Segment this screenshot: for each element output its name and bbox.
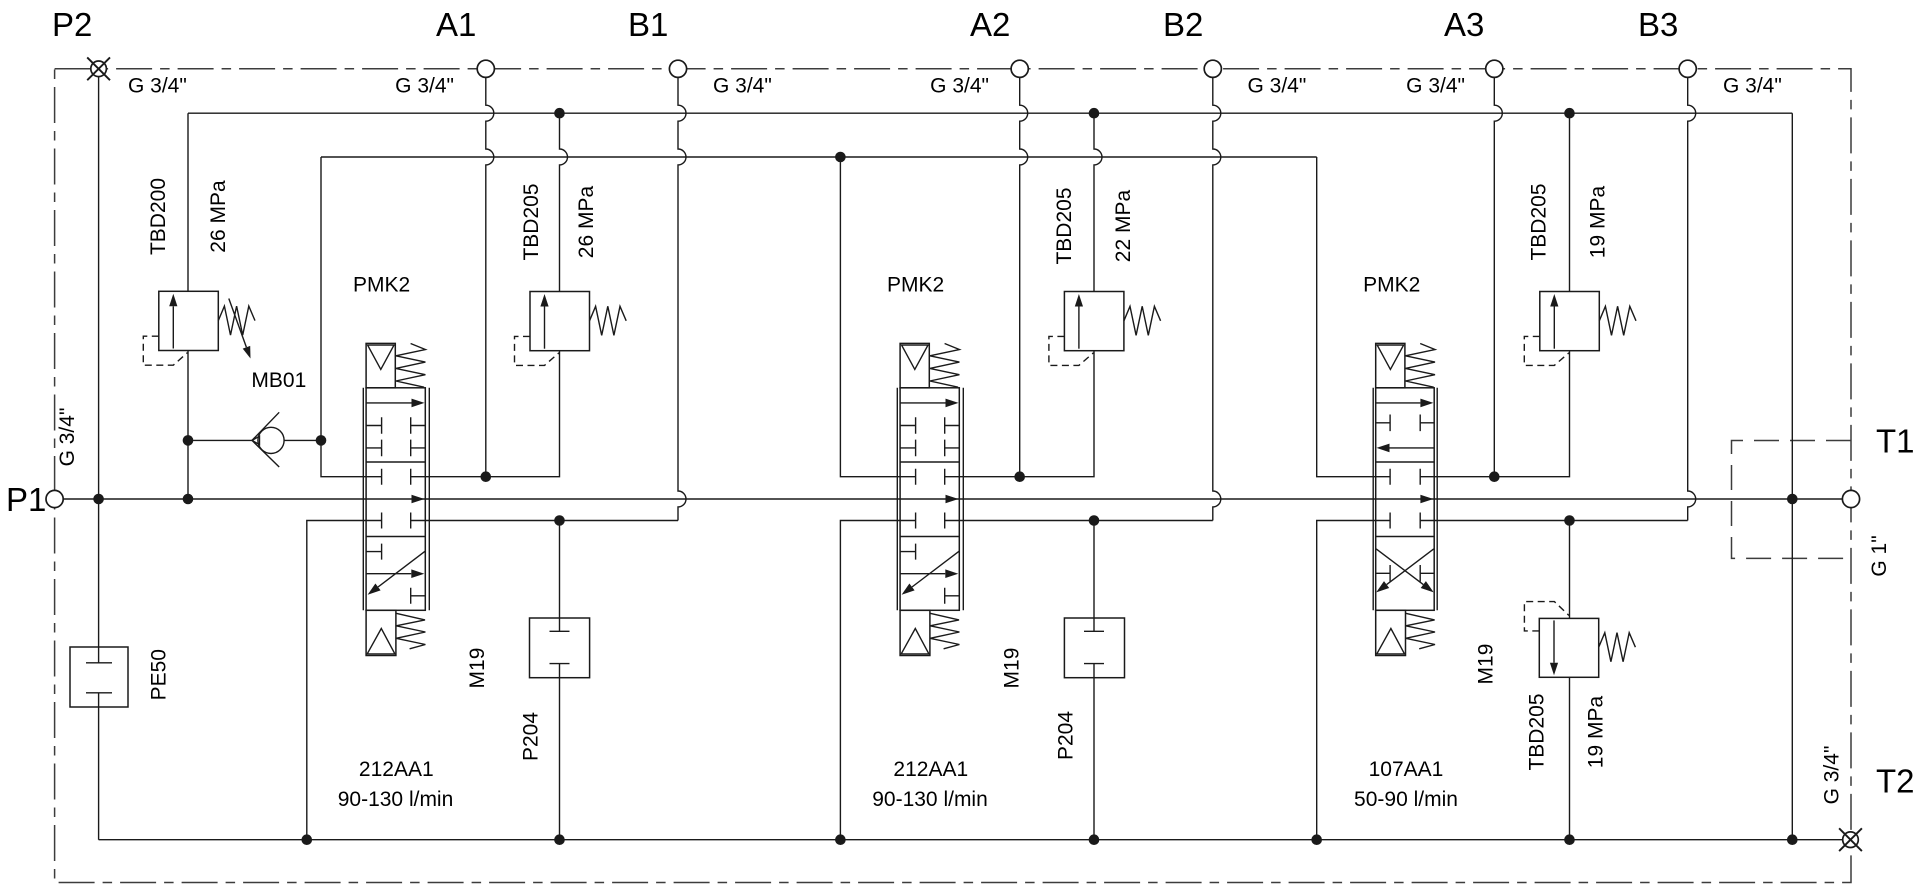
port T1 bbox=[1842, 490, 1859, 507]
svg-text:B3: B3 bbox=[1638, 6, 1678, 43]
svg-text:T2: T2 bbox=[1876, 763, 1915, 800]
svg-text:B1: B1 bbox=[628, 6, 668, 43]
relief valve TBD205 19 MPa (section 3 top) bbox=[1524, 292, 1636, 366]
wire: T return riser (right side) bbox=[1791, 113, 1793, 840]
wire: TBD205 #3 riser to header bbox=[1569, 113, 1571, 291]
position 3 symbols bbox=[366, 544, 382, 560]
spring (bottom) bbox=[930, 613, 959, 649]
wire: PE50 drop from P1 line to tank line bbox=[98, 499, 100, 840]
svg-text:PMK2: PMK2 bbox=[1363, 274, 1420, 297]
wire: A2 riser bbox=[1020, 77, 1028, 477]
svg-text:26 MPa: 26 MPa bbox=[207, 180, 230, 253]
spring (bottom) bbox=[1406, 613, 1435, 649]
pilot actuator (top) bbox=[1376, 343, 1405, 387]
port A1 bbox=[477, 60, 494, 77]
svg-text:212AA1: 212AA1 bbox=[893, 758, 968, 781]
position 1 symbols bbox=[366, 402, 411, 404]
svg-text:TBD205: TBD205 bbox=[1053, 187, 1076, 264]
wire: P2 riser bbox=[98, 77, 100, 499]
wire: A3 riser bbox=[1494, 77, 1502, 477]
port T2 (plugged) bbox=[1843, 832, 1859, 848]
spring (top) bbox=[1405, 344, 1435, 388]
relief valve TBD205 26 MPa (section 1) bbox=[515, 292, 627, 366]
svg-text:50-90 l/min: 50-90 l/min bbox=[1354, 788, 1458, 811]
pilot actuator (bottom) bbox=[900, 610, 930, 655]
wire: section 1 feed drop to check valve and A-stub bbox=[321, 157, 382, 477]
port A2 bbox=[1011, 60, 1028, 77]
svg-text:G 3/4": G 3/4" bbox=[1248, 75, 1307, 98]
svg-text:PMK2: PMK2 bbox=[887, 274, 944, 297]
port P1 bbox=[46, 490, 63, 507]
svg-text:P204: P204 bbox=[520, 712, 543, 761]
check valve MB01 bbox=[252, 412, 284, 467]
junction dot: carryover line section 2 bbox=[835, 152, 846, 163]
junction dots: relief header bbox=[554, 108, 565, 119]
pilot actuator (top) bbox=[366, 343, 395, 387]
junction dots: A-port stubs bbox=[481, 471, 492, 482]
svg-text:TBD200: TBD200 bbox=[147, 178, 170, 255]
wire: check valve inlet segment bbox=[188, 439, 252, 441]
svg-text:TBD205: TBD205 bbox=[1528, 183, 1551, 260]
svg-text:G 3/4": G 3/4" bbox=[1406, 75, 1465, 98]
directional valve PMK2 212AA1 (section 1) bbox=[363, 343, 429, 655]
spring (top) bbox=[396, 344, 426, 388]
junction dots: B-port stubs bbox=[554, 515, 565, 526]
junction dots: check valve line bbox=[183, 435, 194, 446]
wire: B2 riser bbox=[1213, 77, 1221, 521]
svg-text:107AA1: 107AA1 bbox=[1369, 758, 1444, 781]
wire: carryover line (feeds each section) bbox=[321, 156, 1317, 158]
wire: M19 #2 drop / P204 line bbox=[1093, 521, 1095, 840]
directional valve PMK2 107AA1 (section 3) bbox=[1373, 343, 1437, 655]
wire: section 2 A-port stub to relief riser bbox=[945, 351, 1094, 477]
relief valve TBD205 19 MPa (section 3 B-line, downward) bbox=[1524, 602, 1635, 678]
svg-text:212AA1: 212AA1 bbox=[359, 758, 434, 781]
relief valve TBD205 22 MPa (section 2) bbox=[1049, 292, 1161, 366]
valve body (3 positions) bbox=[366, 388, 425, 611]
svg-text:A2: A2 bbox=[970, 6, 1010, 43]
svg-text:G 3/4": G 3/4" bbox=[930, 75, 989, 98]
svg-text:22 MPa: 22 MPa bbox=[1112, 189, 1135, 262]
svg-text:T1: T1 bbox=[1876, 423, 1915, 460]
wire: section 1 A-port stub to relief riser bbox=[411, 351, 560, 477]
wire: section 2 feed drop to A-stub bbox=[840, 157, 915, 477]
position 2 symbols bbox=[916, 469, 945, 485]
svg-text:TBD205: TBD205 bbox=[1526, 693, 1549, 770]
svg-text:PE50: PE50 bbox=[147, 649, 170, 700]
spring (bottom) bbox=[396, 613, 425, 649]
svg-text:G 1": G 1" bbox=[1868, 535, 1891, 576]
svg-text:M19: M19 bbox=[1475, 644, 1498, 685]
svg-text:90-130 l/min: 90-130 l/min bbox=[872, 788, 988, 811]
port P2 (plugged) bbox=[91, 61, 107, 77]
pilot actuator (bottom) bbox=[366, 610, 396, 655]
svg-text:TBD205: TBD205 bbox=[520, 183, 543, 260]
svg-text:90-130 l/min: 90-130 l/min bbox=[338, 788, 454, 811]
wire: section 1 tank stub drop bbox=[307, 521, 382, 840]
wire: B1 riser bbox=[678, 77, 686, 521]
wire: B3 riser bbox=[1688, 77, 1696, 521]
svg-text:P204: P204 bbox=[1054, 711, 1077, 760]
pilot actuator (top) bbox=[900, 343, 929, 387]
junction dots: tank line bbox=[302, 834, 313, 845]
svg-text:A3: A3 bbox=[1444, 6, 1484, 43]
valve side rails bbox=[1373, 388, 1437, 611]
valve body (3 positions) bbox=[1376, 388, 1435, 611]
svg-text:MB01: MB01 bbox=[251, 369, 306, 392]
spring (top) bbox=[930, 344, 960, 388]
svg-text:19 MPa: 19 MPa bbox=[1587, 185, 1610, 258]
svg-text:G 3/4": G 3/4" bbox=[56, 408, 79, 467]
end-section dashed box at T1 bbox=[1732, 441, 1852, 559]
valve side rails bbox=[897, 388, 963, 611]
svg-text:PMK2: PMK2 bbox=[353, 274, 410, 297]
position 1 symbols bbox=[1376, 402, 1421, 404]
junction dots: P1 line bbox=[93, 494, 104, 505]
svg-text:M19: M19 bbox=[1001, 648, 1024, 689]
wire: section 3 A-port stub to relief riser bbox=[1420, 351, 1569, 477]
svg-text:M19: M19 bbox=[466, 648, 489, 689]
position 2 symbols bbox=[382, 469, 411, 485]
directional valve PMK2 212AA1 (section 2) bbox=[897, 343, 963, 655]
wire: section 3 B-port stub (right) bbox=[1420, 520, 1688, 522]
valve side rails bbox=[363, 388, 429, 611]
wire: TBD205 #4 drop line (section 3 B-side relief) bbox=[1569, 521, 1571, 840]
svg-text:G 3/4": G 3/4" bbox=[395, 75, 454, 98]
wire: A1 riser bbox=[486, 77, 494, 477]
wire: check valve outlet segment bbox=[284, 439, 321, 441]
relief valve TBD200 26 MPa (system relief) bbox=[143, 291, 255, 365]
wire: section 3 tank stub drop bbox=[1317, 521, 1390, 840]
port B2 bbox=[1204, 60, 1221, 77]
svg-text:A1: A1 bbox=[436, 6, 476, 43]
plug PE50 bbox=[70, 647, 128, 707]
wire: relief header line (node to TBD200/TBD205 tops) bbox=[188, 112, 1792, 114]
pilot actuator (bottom) bbox=[1376, 610, 1406, 655]
port B3 bbox=[1679, 60, 1696, 77]
svg-text:G 3/4": G 3/4" bbox=[1821, 746, 1844, 805]
wire: TBD205 #1 riser to header bbox=[560, 113, 568, 291]
svg-text:P2: P2 bbox=[52, 6, 92, 43]
wire: TBD205 #2 riser to header bbox=[1094, 113, 1102, 291]
wire: M19 #1 drop / P204 line bbox=[559, 521, 561, 840]
position 3 symbols bbox=[900, 544, 916, 560]
svg-text:P1: P1 bbox=[6, 481, 46, 518]
measuring coupling M19 (section 1) bbox=[530, 618, 590, 678]
svg-text:B2: B2 bbox=[1163, 6, 1203, 43]
wire: TBD200 outlet to P1 line bbox=[187, 350, 189, 499]
position 1 symbols bbox=[900, 402, 945, 404]
wire: section 3 feed drop to A-stub bbox=[1317, 157, 1390, 477]
wire: TBD200 riser to header bbox=[187, 113, 189, 291]
wire: section 2 B-port stub (right) bbox=[945, 520, 1213, 522]
wire: section 2 tank stub drop bbox=[840, 521, 915, 840]
svg-text:G 3/4": G 3/4" bbox=[1723, 75, 1782, 98]
svg-text:G 3/4": G 3/4" bbox=[128, 75, 187, 98]
svg-text:26 MPa: 26 MPa bbox=[575, 185, 598, 258]
valve body (3 positions) bbox=[900, 388, 959, 611]
wire: section 1 B-port stub (right) bbox=[411, 520, 678, 522]
measuring coupling M19 (section 2) bbox=[1064, 618, 1124, 678]
port A3 bbox=[1486, 60, 1503, 77]
wire: tank return line (bottom) bbox=[99, 839, 1843, 841]
position 2 symbols bbox=[1390, 469, 1420, 485]
svg-text:G 3/4": G 3/4" bbox=[713, 75, 772, 98]
port B1 bbox=[669, 60, 686, 77]
position 3 symbols bbox=[1376, 549, 1423, 585]
wire: P1 pressure gallery bbox=[63, 498, 1843, 500]
svg-text:19 MPa: 19 MPa bbox=[1585, 695, 1608, 768]
